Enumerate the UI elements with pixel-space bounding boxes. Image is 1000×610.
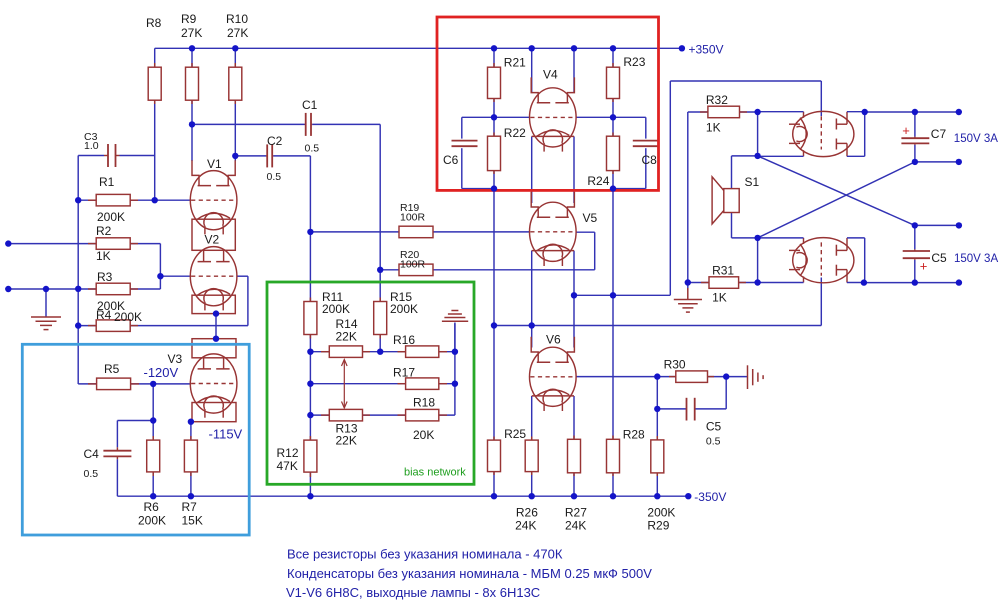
resistor R4 (88, 308, 142, 331)
tube V3 anode box (192, 339, 236, 358)
input terminal lower (5, 286, 11, 292)
resistor R6 (138, 436, 166, 528)
svg-text:+: + (920, 259, 928, 274)
tube V1-V2 interconnect box (192, 219, 235, 250)
wire R10 bottom / C2 node (234, 101, 236, 162)
wire R2 input (8, 243, 96, 245)
wire C5 parallel loop (657, 377, 726, 409)
svg-text:R31: R31 (712, 264, 734, 278)
wire upper output plate rail to C7 and terminal (865, 111, 959, 113)
wire R9 bottom / C1 node (191, 101, 193, 162)
wire lower output plate rail to C5 bottom and terminal (864, 260, 959, 283)
wire R10 top lead (234, 48, 236, 67)
wire R30 right to ground (708, 376, 748, 378)
wire C7 bottom to terminal (915, 112, 959, 162)
wire C1 left (192, 123, 305, 125)
tube V3 (168, 352, 237, 418)
resistor R32 (700, 93, 747, 135)
speaker S1 (712, 175, 759, 224)
resistor R19 (399, 202, 433, 238)
output tube upper frame (758, 112, 865, 157)
wire R5 leads / V3 grid (78, 383, 190, 385)
svg-text:47K: 47K (277, 459, 298, 473)
wire output node to upper driver grid (574, 81, 821, 295)
capacitor C8 (633, 141, 659, 167)
wire V4 cathode to V5 anodes (532, 136, 574, 203)
svg-text:C8: C8 (642, 153, 658, 167)
wire bias R15 bottom (379, 333, 381, 352)
resistor R17 (393, 366, 447, 390)
resistor R10 (226, 12, 248, 104)
wire V2 grid right to R4 (130, 276, 248, 325)
svg-text:R23: R23 (623, 55, 645, 69)
capacitor C4 (84, 447, 132, 480)
wire lower node to lower output grid (494, 278, 821, 326)
svg-text:R21: R21 (504, 56, 526, 70)
svg-text:V1-V6 6Н8С, выходные лампы - 8: V1-V6 6Н8С, выходные лампы - 8х 6Н13С (286, 585, 540, 600)
resistor R28 (607, 428, 646, 477)
svg-text:0.5: 0.5 (84, 468, 99, 480)
capacitor C3 (84, 131, 120, 167)
tube V2 cathode box (192, 295, 235, 313)
svg-text:R3: R3 (97, 270, 113, 284)
wire cross diagonal upper-to-C5 (758, 156, 915, 226)
wire V4 grid right to R23/R24 (576, 48, 613, 136)
svg-text:27K: 27K (227, 26, 248, 40)
svg-text:15K: 15K (182, 514, 203, 528)
label 150V 3A upper (954, 133, 998, 145)
wire R4 left (78, 325, 96, 327)
svg-text:V6: V6 (546, 333, 561, 347)
svg-text:R18: R18 (413, 396, 435, 410)
wire R22 bottom column to R25 (493, 171, 495, 441)
resistor R29 (647, 436, 675, 533)
svg-text:R4: R4 (96, 308, 112, 322)
wire R7 leads (190, 422, 192, 497)
wire R26 R27 bottoms (532, 472, 574, 497)
wire C3 leads (78, 155, 155, 157)
tube V4 cathode bar (532, 135, 574, 137)
capacitor C6 (443, 141, 478, 167)
svg-text:1K: 1K (96, 249, 111, 263)
wire C2 right to R19/R11 column (273, 156, 310, 302)
svg-text:1.0: 1.0 (84, 140, 99, 152)
svg-text:-115V: -115V (209, 427, 243, 442)
svg-text:V3: V3 (168, 352, 183, 366)
wire bias R14 row (310, 351, 405, 353)
resistor R21 (488, 56, 527, 103)
resistor R7 (182, 436, 203, 528)
svg-text:C4: C4 (84, 447, 100, 461)
input terminal upper (5, 240, 11, 246)
wire bias R13/R18 row (310, 414, 455, 416)
green box bias network (267, 282, 474, 484)
resistor R12 (277, 436, 317, 477)
wire R8 top lead (154, 48, 156, 67)
wire C2 left (235, 155, 266, 157)
svg-text:100R: 100R (400, 259, 426, 271)
svg-text:20K: 20K (413, 428, 434, 442)
svg-text:+350V: +350V (689, 43, 724, 57)
wire R12 bottom (309, 472, 311, 496)
svg-text:R17: R17 (393, 366, 415, 380)
wire speaker bottom (732, 213, 758, 238)
wire R32 leads (688, 111, 758, 113)
resistor R25 (488, 427, 527, 475)
svg-text:150V 3A: 150V 3A (954, 253, 998, 265)
wire +350V rail (155, 47, 682, 49)
svg-text:24K: 24K (565, 519, 586, 533)
svg-text:+: + (902, 123, 910, 138)
svg-text:22K: 22K (336, 434, 357, 448)
svg-text:Конденсаторы без указания номи: Конденсаторы без указания номинала - МБМ… (287, 566, 652, 581)
svg-text:R24: R24 (587, 174, 609, 188)
resistor R31 (701, 264, 746, 305)
svg-text:R7: R7 (182, 500, 198, 514)
svg-text:100R: 100R (400, 212, 426, 224)
wire R24 bottom column to R28 (612, 171, 614, 440)
svg-text:200K: 200K (647, 506, 675, 520)
ground near R3 input (31, 289, 61, 330)
svg-text:S1: S1 (745, 175, 760, 189)
resistor R26 (515, 437, 538, 533)
svg-text:27K: 27K (181, 26, 202, 40)
svg-text:C5: C5 (931, 251, 947, 265)
output tube lower (789, 238, 854, 283)
tube V6 cathode bar (532, 395, 574, 397)
wire bias R17 row (310, 383, 455, 385)
capacitor C5 (output) (903, 249, 947, 273)
wire R32/R31 left column (687, 112, 689, 283)
svg-text:C2: C2 (267, 134, 283, 148)
label +350V (689, 43, 724, 57)
svg-text:R1: R1 (99, 175, 115, 189)
svg-text:200K: 200K (322, 302, 350, 316)
resistor R8 (146, 16, 162, 104)
resistor R13 (trimmer) (321, 409, 370, 447)
svg-text:C6: C6 (443, 153, 459, 167)
wire R2/R3 jog to V2 grid (130, 244, 190, 289)
tube V5 cathode bar (532, 250, 574, 252)
svg-text:1K: 1K (712, 291, 727, 305)
output tube upper (789, 111, 854, 156)
resistor R20 (399, 249, 433, 276)
svg-text:200K: 200K (114, 310, 142, 324)
resistor R5 (88, 362, 139, 390)
svg-text:C1: C1 (302, 98, 318, 112)
label -350V (694, 490, 726, 504)
wire R31 leads (688, 282, 758, 284)
svg-text:R8: R8 (146, 16, 162, 30)
svg-text:0.5: 0.5 (267, 171, 282, 183)
svg-text:150V 3A: 150V 3A (954, 133, 998, 145)
svg-text:-350V: -350V (694, 490, 726, 504)
tube V6 (530, 333, 577, 412)
svg-text:C5: C5 (706, 420, 722, 434)
svg-text:200K: 200K (390, 302, 418, 316)
resistor R30 (664, 358, 714, 383)
svg-text:R27: R27 (565, 506, 587, 520)
wire C4 bottom (116, 459, 118, 496)
tube V2 (190, 233, 237, 311)
wire V1 grid (78, 199, 190, 201)
wire bias R16 right / ground column (439, 324, 455, 416)
resistor R11 (304, 290, 350, 339)
svg-text:R26: R26 (516, 506, 538, 520)
wire -350V rail (bottom) (117, 495, 688, 497)
wire C8 loop (613, 117, 646, 188)
svg-text:R9: R9 (181, 12, 197, 26)
svg-text:R16: R16 (393, 333, 415, 347)
svg-text:200K: 200K (97, 210, 125, 224)
bottom notes (286, 547, 652, 601)
wire R8 bottom to V1 grid node (154, 101, 156, 201)
svg-text:R5: R5 (104, 362, 120, 376)
svg-text:R25: R25 (504, 427, 526, 441)
wire R6 bottom (152, 473, 154, 496)
resistor R15 (374, 290, 418, 339)
wire C5 top node (915, 225, 959, 249)
wire C1 right to R20/R15 column (312, 124, 380, 301)
capacitor C5 (near R30) (687, 398, 722, 448)
svg-text:R30: R30 (664, 358, 686, 372)
svg-text:R6: R6 (144, 500, 160, 514)
svg-text:Все резисторы без указания ном: Все резисторы без указания номинала - 47… (287, 547, 563, 562)
wire bias R11 column (309, 333, 311, 440)
svg-text:C7: C7 (931, 127, 947, 141)
trimmer arrow (342, 360, 348, 409)
resistor R23 (607, 55, 646, 102)
svg-text:bias network: bias network (404, 467, 466, 479)
svg-text:0.5: 0.5 (305, 143, 320, 155)
wire V5 cathode to V6 anodes (532, 251, 574, 348)
wire R9 top lead (191, 48, 193, 67)
wire R29 leads (656, 409, 658, 496)
wire V2 cathode to V3 anode link (215, 314, 217, 339)
wire V3 grid node down to R6 / C4 (117, 384, 153, 447)
wire R19 row (310, 231, 529, 233)
output tube lower frame (758, 238, 865, 283)
svg-text:V4: V4 (543, 68, 558, 82)
svg-text:R22: R22 (504, 126, 526, 140)
resistor R22 (488, 126, 527, 174)
svg-text:1K: 1K (706, 121, 721, 135)
svg-text:24K: 24K (515, 519, 536, 533)
resistor R14 (trimmer) (321, 317, 370, 357)
red box around V4 stage (437, 17, 659, 190)
capacitor C7 (901, 123, 946, 145)
svg-text:R32: R32 (706, 93, 728, 107)
terminal -350V (685, 493, 691, 499)
svg-text:22K: 22K (336, 330, 357, 344)
svg-text:R28: R28 (623, 428, 645, 442)
wire V6 cathode to R26 R27 (532, 396, 574, 440)
wire C6 loop (462, 117, 494, 188)
output terminals (956, 109, 963, 286)
svg-text:V5: V5 (583, 211, 598, 225)
tube V1 (190, 157, 237, 234)
svg-text:V2: V2 (205, 233, 220, 247)
resistor R2 (88, 224, 138, 263)
capacitor C1 (302, 98, 319, 155)
tube V3 cathode box (192, 403, 236, 422)
ground below R31 (674, 283, 702, 313)
terminal +350V (679, 45, 685, 51)
resistor R24 (587, 133, 619, 189)
wire R28 bottom (612, 473, 614, 496)
capacitor C2 (266, 134, 283, 183)
resistor R18 (398, 396, 448, 443)
svg-text:R10: R10 (226, 12, 248, 26)
resistor R27 (565, 436, 587, 533)
tube V5 (530, 192, 598, 266)
wire speaker top (732, 156, 758, 189)
wire R20 row to V5 grid jog (380, 232, 595, 270)
wire V6 grid to R30 (576, 376, 676, 378)
resistor R3 (88, 270, 138, 313)
wire cross diagonal lower-to-C7 (758, 162, 915, 238)
svg-text:V1: V1 (207, 157, 222, 171)
svg-text:R29: R29 (647, 519, 669, 533)
blue box V3 stage (22, 344, 249, 535)
tube V4 (530, 68, 577, 152)
svg-text:R12: R12 (277, 446, 299, 460)
resistor R16 (393, 333, 447, 357)
label -115V (209, 427, 243, 442)
wire V4 grid left to R21/R22 (494, 48, 530, 136)
wire C3 node vertical (77, 156, 79, 385)
bias network label (404, 467, 466, 479)
resistor R9 (181, 12, 202, 104)
svg-text:0.5: 0.5 (706, 436, 721, 448)
wire V4 anode leads from rail (532, 48, 574, 92)
svg-text:200K: 200K (138, 514, 166, 528)
svg-text:R2: R2 (96, 224, 112, 238)
label -120V (144, 365, 179, 380)
svg-text:-120V: -120V (144, 365, 179, 380)
ground in bias network (inverted) (442, 311, 468, 352)
label 150V 3A lower (954, 253, 998, 265)
resistor R1 (88, 175, 138, 224)
wire R3 input (8, 288, 96, 290)
ground right of R30 (rotated) (748, 365, 764, 389)
wire R25 bottom (493, 472, 495, 497)
